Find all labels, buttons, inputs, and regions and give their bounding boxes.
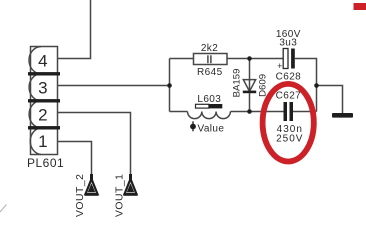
svg-text:C627: C627 [276, 91, 302, 102]
svg-text:+: + [277, 61, 283, 71]
svg-text:2k2: 2k2 [201, 43, 218, 54]
svg-text:3: 3 [38, 79, 47, 98]
svg-text:3u3: 3u3 [279, 37, 297, 48]
svg-text:C628: C628 [276, 71, 302, 82]
svg-text:250V: 250V [276, 134, 303, 145]
svg-text:2: 2 [38, 106, 47, 125]
svg-text:VOUT_2: VOUT_2 [75, 174, 86, 217]
svg-text:PL601: PL601 [27, 156, 64, 170]
svg-text:R645: R645 [197, 67, 223, 78]
svg-text:BA159: BA159 [231, 69, 242, 98]
svg-text:1: 1 [38, 132, 47, 151]
svg-text:4: 4 [38, 51, 47, 70]
svg-text:Value: Value [198, 124, 225, 135]
svg-text:VOUT_1: VOUT_1 [115, 174, 126, 217]
svg-text:D609: D609 [258, 74, 269, 97]
svg-text:L603: L603 [197, 94, 221, 105]
